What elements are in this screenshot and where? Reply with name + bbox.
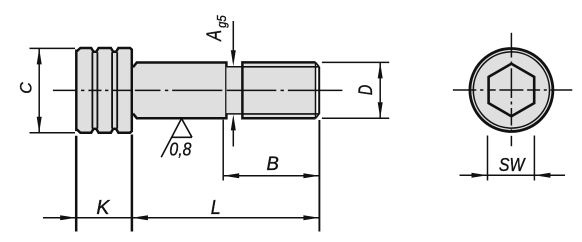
dimension C extension lines [30,48,76,132]
SW dimension line [460,174,566,176]
K/L extension lines [75,136,78,232]
svg-text:0,8: 0,8 [169,140,191,160]
dimension C arrows [37,48,42,64]
svg-text:SW: SW [499,154,526,176]
surface finish symbol [161,119,192,158]
head (knurled) fill and outline [76,48,132,133]
end view chamfer circle [473,52,549,128]
end view outer circle [470,49,553,132]
end view horizontal centerline [453,89,572,91]
dimension B extension line [222,120,224,181]
thread outline (major diameter) [242,62,315,118]
end view vertical centerline [510,33,512,146]
svg-text:K: K [96,196,111,218]
shaft outline [133,63,226,119]
svg-text:g5: g5 [214,15,229,28]
hex socket [489,64,535,117]
dimension D arrows [378,62,383,78]
dimension D extension lines [322,62,389,118]
undercut groove edges [226,67,242,114]
svg-text:C: C [17,82,36,94]
dimension A arrows (undercut dia) [232,21,234,147]
SW extension lines [488,136,535,181]
dimension B line [223,175,319,177]
K/L dimension line [43,217,319,219]
svg-text:B: B [267,153,280,175]
svg-text:A: A [202,30,225,42]
thread end chamfer [315,62,317,118]
svg-text:D: D [355,85,376,95]
thread minor diameter lines [242,67,319,114]
head knurl groove lines [92,52,117,128]
side view centerline [53,89,343,91]
thread fill [242,62,315,118]
undercut groove fill [226,67,242,114]
shaft fill [133,63,226,119]
svg-text:L: L [211,197,221,219]
